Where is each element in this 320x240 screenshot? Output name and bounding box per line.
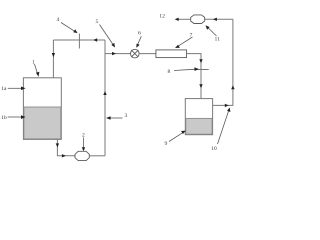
svg-text:1: 1 [32, 60, 35, 66]
wire tank T1 top vent pipe [52, 40, 55, 78]
label 10 leader [218, 108, 231, 145]
label 3 leader [106, 116, 123, 120]
label 8 leader [174, 67, 199, 71]
valve V6 circle-cross [131, 49, 140, 58]
wire top recirculation pipe to tank T1 [53, 38, 105, 41]
wire tank 1 bottom outlet [56, 139, 75, 157]
valve tick 4 on top pipe [78, 34, 80, 49]
label 2 leader [82, 138, 85, 152]
wire top return pipe to pump 11 [205, 18, 233, 21]
label 9 leader [169, 131, 186, 142]
svg-text:5: 5 [96, 19, 99, 25]
wire tank 9 outlet to right riser 10 [213, 19, 235, 107]
label 1b inlet arrow [8, 115, 26, 119]
svg-text:4: 4 [57, 17, 60, 23]
svg-text:7: 7 [190, 33, 193, 39]
wire branch pipe to valve 6 [105, 52, 131, 55]
svg-text:2: 2 [82, 133, 85, 139]
svg-text:10: 10 [211, 146, 217, 152]
wire pump 11 discharge to outlet 12 [175, 18, 191, 21]
tank T9 liquid fill [186, 118, 212, 134]
svg-text:9: 9 [165, 141, 168, 147]
svg-text:3: 3 [125, 113, 128, 119]
tank T1 vessel body [23, 78, 61, 140]
tank T1 liquid fill 1b [24, 107, 61, 139]
label 6 leader [136, 36, 141, 48]
label 1 leader [35, 64, 40, 77]
wire exchanger 7 outlet down to tank 9 [187, 54, 203, 99]
svg-text:12: 12 [159, 14, 165, 20]
svg-text:11: 11 [215, 37, 221, 43]
pump P11 octagon [191, 15, 205, 24]
heat exchanger E7 [156, 50, 187, 58]
wire pump 2 discharge to riser [89, 155, 105, 157]
pump P2 octagon [75, 151, 89, 160]
label 1a inlet arrow [8, 87, 26, 91]
label 7 leader [175, 37, 193, 48]
svg-text:8: 8 [168, 69, 171, 75]
label 5 leader [100, 25, 116, 48]
label 11 leader [206, 25, 217, 36]
tank T9 vessel body [185, 99, 212, 135]
label 4 leader [61, 23, 78, 34]
svg-text:6: 6 [138, 31, 141, 37]
wire valve 6 to exchanger 7 [139, 53, 156, 55]
orifice tick 8 on downcomer [195, 69, 209, 71]
wire main riser pipe 3 [103, 40, 106, 156]
svg-text:1b: 1b [1, 115, 7, 121]
svg-text:1a: 1a [1, 86, 7, 92]
